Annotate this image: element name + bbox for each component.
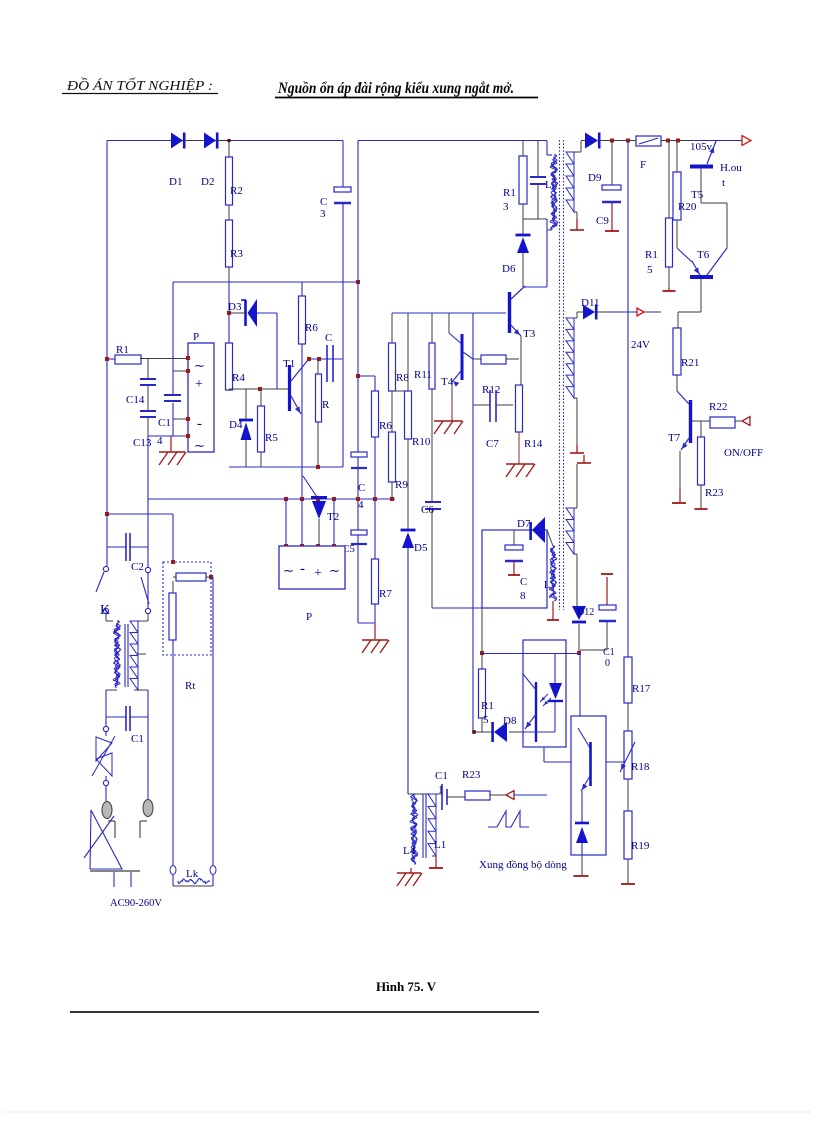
transistor T1	[290, 360, 309, 414]
opto box U1	[523, 640, 566, 747]
wire D6 to collector	[523, 219, 547, 287]
label F	[640, 159, 646, 171]
label R2	[230, 185, 243, 197]
ground sec1	[570, 219, 584, 230]
terminal ON/OFF	[742, 417, 750, 426]
capacitor snubber	[530, 177, 546, 184]
svg-text:C2: C2	[131, 561, 144, 573]
winding sec1	[566, 152, 574, 212]
capacitor C8	[505, 545, 523, 561]
winding L1	[428, 794, 436, 856]
transistor T3	[510, 286, 526, 336]
label R t1	[322, 399, 330, 411]
wire R18 row	[606, 761, 624, 763]
wire L2 stub	[547, 530, 553, 546]
node R2 top	[227, 139, 230, 142]
wire T3 emitter col	[520, 336, 522, 385]
capacitor C11	[442, 784, 447, 810]
ground R7	[362, 640, 389, 653]
svg-text:C6: C6	[421, 504, 434, 516]
label R23c	[462, 769, 481, 781]
node R1 left	[105, 357, 109, 361]
label D7	[517, 518, 531, 530]
bottom dotted line	[4, 1111, 812, 1113]
label C6	[421, 504, 434, 516]
wire bus y499	[148, 498, 395, 500]
wire R15o area	[481, 608, 483, 653]
resistor R11	[429, 343, 435, 389]
resistor R15b	[666, 218, 673, 267]
label C7	[486, 438, 499, 450]
winding L2	[549, 546, 556, 601]
node R bottom	[316, 465, 320, 469]
wire prongs	[106, 717, 148, 801]
node P1 pins	[186, 356, 190, 438]
label R5	[265, 432, 278, 444]
wire C7 row	[473, 404, 513, 406]
label T4	[441, 376, 454, 388]
label T1	[283, 358, 295, 370]
label R4	[232, 372, 245, 384]
svg-text:Rt: Rt	[185, 680, 195, 692]
wire R6c column	[301, 282, 303, 499]
resistor R7	[372, 559, 379, 604]
wire diode link	[184, 140, 229, 142]
wire R6b bottom	[374, 437, 376, 499]
svg-text:∼: ∼	[283, 563, 294, 578]
wire x473 long	[472, 313, 474, 732]
wire R23c out	[490, 794, 506, 796]
svg-text:D1: D1	[169, 176, 182, 188]
svg-text:ON/OFF: ON/OFF	[724, 447, 763, 459]
wire T5 base path	[701, 168, 727, 248]
wire R23b bottom	[700, 485, 702, 509]
diode D4	[239, 420, 253, 440]
resistor R6 box	[299, 296, 306, 344]
capacitor C3	[334, 187, 351, 203]
diode D11	[583, 305, 596, 320]
node bus282 end	[356, 280, 360, 284]
wire T4 base	[449, 313, 461, 343]
svg-text:C: C	[358, 482, 365, 494]
node rail dots	[666, 139, 680, 143]
wire R18R19	[627, 779, 629, 811]
transistor T4	[452, 334, 473, 387]
label R12	[482, 384, 500, 396]
diode D9	[585, 133, 599, 149]
transistor T5	[690, 141, 716, 167]
svg-text:+: +	[195, 377, 203, 392]
switch K	[96, 566, 151, 613]
svg-text:t: t	[722, 177, 725, 189]
rectifier P2 box	[279, 546, 345, 589]
plug prong right	[143, 800, 153, 817]
node P2 pins	[284, 544, 336, 548]
wire node row 359	[308, 358, 343, 360]
wire C8 top	[513, 530, 515, 545]
svg-text:AC90-260V: AC90-260V	[110, 898, 162, 909]
svg-text:R6: R6	[379, 420, 392, 432]
label D3	[228, 301, 242, 313]
resistor R1	[115, 355, 141, 364]
wire R14 bottom	[518, 432, 520, 464]
winding L3	[550, 155, 558, 229]
wire R2R3 column	[228, 141, 230, 344]
wire R8R9 link	[392, 391, 408, 432]
resistor R8	[389, 343, 396, 391]
node y653	[480, 651, 581, 655]
label R11	[414, 369, 432, 381]
ground C10 top	[601, 573, 613, 575]
svg-text:C1: C1	[435, 770, 448, 782]
resistor R4	[226, 343, 233, 390]
caption Hinh 75	[376, 979, 437, 994]
resistor R t1	[316, 374, 322, 422]
capacitor C4	[351, 452, 367, 468]
wire R bottom	[317, 422, 319, 467]
wire L1 bottom	[432, 856, 436, 868]
svg-text:C1: C1	[131, 733, 144, 745]
svg-text:R20: R20	[678, 201, 697, 213]
capacitor C t1	[327, 345, 333, 382]
wire left vertical	[106, 141, 108, 567]
node D3	[227, 311, 231, 315]
svg-text:R1: R1	[481, 700, 494, 712]
header title Nguon on ap	[275, 80, 538, 98]
label ON/OFF	[724, 447, 763, 459]
label Lk	[186, 868, 199, 880]
wire R23b top	[700, 421, 702, 437]
svg-text:3: 3	[320, 208, 326, 220]
label R13	[503, 187, 516, 213]
label T5	[691, 189, 704, 201]
wire R7 bottom	[374, 604, 376, 639]
node Rt	[171, 560, 213, 579]
capacitor C13	[140, 411, 156, 417]
wire T4 emitter	[451, 384, 453, 421]
box C8D7	[482, 530, 547, 608]
wire L3 top feed	[547, 141, 552, 156]
wire y732 row	[474, 731, 523, 733]
resistor R2	[226, 157, 233, 205]
resistor R5	[258, 406, 265, 452]
label R15o	[481, 700, 494, 726]
winding sec3	[566, 508, 574, 554]
contact circle	[103, 717, 108, 732]
wire y219 row	[523, 218, 547, 220]
ground T4	[434, 421, 463, 434]
wire sec2 top	[574, 312, 583, 318]
ground sec2b	[577, 455, 591, 463]
label K	[100, 603, 110, 618]
plug prong left	[102, 802, 112, 819]
label R8	[396, 372, 409, 384]
svg-text:C14: C14	[126, 394, 145, 406]
label D12	[577, 607, 594, 618]
winding L4	[410, 794, 418, 864]
header text DO AN TOT NGHIEP	[62, 76, 218, 94]
wire R20 col	[676, 141, 678, 173]
label D8	[503, 715, 517, 727]
svg-text:D7: D7	[517, 518, 531, 530]
choke core	[125, 624, 128, 687]
svg-text:Nguồn ổn áp đài rộng kiểu xung: Nguồn ổn áp đài rộng kiểu xung ngắt mở.	[277, 80, 514, 97]
contact circle2	[103, 776, 108, 786]
rectifier P1 box	[188, 343, 214, 452]
svg-text:∼: ∼	[194, 358, 205, 373]
label D1	[169, 176, 182, 188]
wire x229 to R4	[228, 282, 230, 343]
wire 24V	[597, 311, 661, 313]
svg-text:Xung đồng bộ dòng: Xung đồng bộ dòng	[479, 859, 567, 871]
capacitor C9	[602, 185, 621, 202]
svg-text:R3: R3	[230, 248, 243, 260]
wire C11 to R23	[447, 796, 465, 798]
wire Rt wires	[173, 576, 213, 578]
resistor R23b	[698, 437, 705, 485]
label H.out	[720, 162, 742, 189]
svg-text:R12: R12	[482, 384, 500, 396]
wire sec1 top	[574, 141, 585, 153]
resistor R12	[481, 355, 506, 364]
diode D3	[241, 299, 257, 327]
label T3	[523, 328, 536, 340]
wire P2 risers	[286, 499, 334, 546]
wire C1 row	[106, 690, 148, 717]
label C10	[603, 647, 615, 669]
pot R18 arrow	[620, 742, 635, 772]
wire R21 bottom	[677, 375, 689, 404]
svg-text:R10: R10	[412, 436, 431, 448]
resistor Rt vertical	[169, 593, 176, 640]
wire R1 left	[107, 358, 115, 360]
wire R15b bottom	[668, 267, 670, 288]
resistor R18	[624, 731, 632, 779]
arrester	[92, 732, 115, 776]
svg-text:L4: L4	[403, 845, 416, 857]
svg-text:0: 0	[605, 658, 610, 669]
svg-text:P: P	[306, 611, 312, 623]
svg-text:4: 4	[157, 435, 163, 447]
label R3	[230, 248, 243, 260]
wire rail to out	[691, 140, 742, 142]
choke winding right	[130, 621, 138, 690]
wire R12 ends	[473, 358, 519, 360]
opto LED	[548, 654, 563, 732]
capacitor C10	[599, 605, 616, 621]
wire under K	[106, 614, 148, 621]
wire y653 row	[482, 653, 579, 655]
svg-text:R2: R2	[230, 185, 243, 197]
opto transistor	[523, 674, 555, 742]
box2 regulator	[571, 716, 606, 855]
svg-text:C: C	[325, 332, 332, 344]
wire C3 column	[342, 141, 344, 283]
resistor R10	[405, 391, 412, 439]
label R22	[709, 401, 727, 413]
wire R15o bottom	[481, 718, 483, 732]
svg-text:D6: D6	[502, 263, 516, 275]
wire snubber cap col	[537, 141, 539, 220]
label R6 box	[305, 322, 318, 334]
resistor R23c	[465, 791, 490, 800]
resistor R6b	[372, 391, 379, 437]
svg-text:R8: R8	[396, 372, 409, 384]
svg-text:C13: C13	[133, 437, 152, 449]
node y514	[105, 512, 109, 516]
label R21	[681, 357, 699, 369]
label R20	[678, 201, 697, 213]
wire R5 bottom	[260, 452, 262, 467]
wire R10 bottom	[407, 439, 409, 530]
svg-text:D3: D3	[228, 301, 242, 313]
arrow sync	[506, 791, 514, 800]
wire box2 gnd	[581, 855, 583, 876]
wire T7 base	[692, 420, 710, 422]
svg-text:D2: D2	[201, 176, 214, 188]
wire R5 stub	[260, 389, 262, 406]
label R10	[412, 436, 431, 448]
ground L1	[429, 867, 443, 869]
wire x148 col	[147, 499, 149, 608]
wire L3 bottom	[547, 229, 552, 231]
wire R13 column	[522, 141, 524, 235]
Rt dashed box	[163, 562, 211, 655]
wire D3 out	[229, 313, 277, 389]
svg-text:Hình 75. V: Hình 75. V	[376, 979, 437, 994]
svg-text:T5: T5	[691, 189, 704, 201]
svg-text:3: 3	[503, 201, 509, 213]
wire R15o top	[481, 653, 483, 669]
label 24V	[631, 339, 650, 351]
svg-text:+: +	[314, 566, 322, 581]
svg-text:T3: T3	[523, 328, 536, 340]
wire y608 to box	[432, 607, 482, 609]
wire C10 col	[606, 577, 608, 605]
svg-text:-: -	[197, 416, 202, 432]
label P1	[193, 331, 199, 343]
winding sec2	[566, 318, 574, 398]
label C13	[133, 437, 152, 449]
wire box2 feed	[579, 653, 581, 716]
node base row	[258, 387, 262, 391]
node rail C9	[610, 139, 630, 143]
label C5	[342, 543, 355, 555]
svg-text:D8: D8	[503, 715, 517, 727]
label D2	[201, 176, 214, 188]
svg-text:C: C	[520, 576, 527, 588]
svg-text:R14: R14	[524, 438, 543, 450]
resistor R17	[624, 657, 632, 703]
wire C9 gnd	[611, 203, 613, 231]
wire C2 row	[107, 546, 148, 548]
label R15b	[645, 249, 658, 276]
label R7	[379, 588, 392, 600]
wire D5 bottom	[407, 548, 409, 794]
box2 transistor	[578, 728, 591, 791]
label C4	[358, 482, 365, 511]
svg-text:D4: D4	[229, 419, 243, 431]
box1 right edge	[342, 282, 344, 467]
resistor R15o	[479, 669, 486, 718]
wire C9 col	[611, 141, 613, 186]
capacitor C6	[425, 502, 441, 509]
box1 bottom edge	[229, 466, 343, 468]
diode D1	[171, 133, 184, 149]
diode D6	[516, 235, 531, 253]
resistor R3	[226, 220, 233, 267]
label R18	[631, 761, 650, 773]
label R6b	[379, 420, 392, 432]
wire sync out	[514, 794, 547, 796]
wire x213 col	[212, 577, 214, 866]
wire x173 vertical	[172, 282, 174, 562]
label C8	[520, 576, 527, 602]
svg-text:R23: R23	[705, 487, 724, 499]
label AC	[110, 898, 162, 909]
wire sec3 top	[574, 464, 577, 508]
wire R22 out	[735, 420, 742, 422]
label C2	[131, 561, 144, 573]
label T7	[668, 432, 681, 444]
ground R15b	[663, 288, 676, 291]
ground T7	[672, 502, 686, 504]
wire base row	[229, 389, 288, 390]
svg-text:4: 4	[358, 499, 364, 511]
choke winding left	[113, 621, 120, 687]
label D6	[502, 263, 516, 275]
svg-text:F: F	[640, 159, 646, 171]
svg-text:8: 8	[520, 590, 526, 602]
label T6	[697, 249, 710, 261]
svg-text:105v: 105v	[690, 141, 713, 153]
wire C10 bottom	[580, 622, 607, 650]
output terminal H.out	[742, 136, 751, 146]
capacitor C5	[351, 530, 367, 544]
wire R15b col	[668, 141, 670, 219]
node y732	[472, 730, 476, 734]
svg-text:R1: R1	[116, 344, 129, 356]
wire L2 bottom gnd	[547, 601, 559, 620]
svg-text:R11: R11	[414, 369, 432, 381]
svg-text:R5: R5	[265, 432, 278, 444]
transistor T6	[690, 248, 727, 277]
resistor R14	[516, 385, 523, 432]
ground L4	[397, 868, 422, 886]
svg-text:R6: R6	[305, 322, 318, 334]
diode D12	[572, 606, 586, 622]
svg-text:P: P	[193, 331, 199, 343]
wire x628 rail	[627, 141, 629, 658]
wire D4 bottom	[245, 440, 247, 467]
label L3	[545, 179, 558, 191]
label R17	[632, 683, 651, 695]
resistor R9	[389, 432, 396, 482]
svg-text:C1: C1	[158, 417, 171, 429]
svg-text:Lk: Lk	[186, 868, 199, 880]
waveform sawtooth	[488, 811, 529, 827]
ground P1	[159, 436, 186, 465]
wire choke bottoms	[106, 689, 148, 691]
node bus499 dots	[284, 497, 394, 501]
wire y794 row	[408, 793, 442, 795]
svg-text:K: K	[100, 603, 110, 618]
transformer core	[560, 140, 564, 610]
svg-text:-: -	[300, 561, 305, 577]
wire R19 bottom	[627, 859, 629, 884]
wire R7 col	[374, 499, 376, 559]
ground R19	[621, 883, 635, 885]
